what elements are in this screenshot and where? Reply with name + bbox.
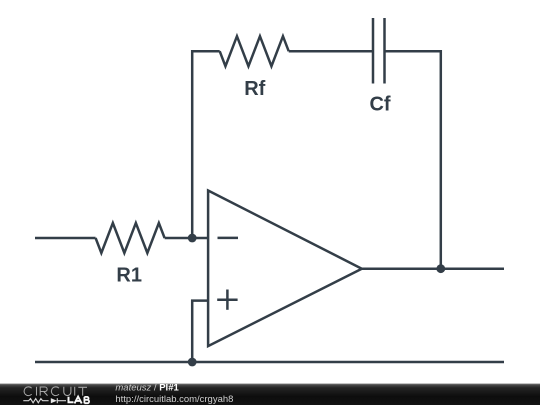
CircuitLab logo resistor-diode glyph (23, 398, 66, 403)
wire output (362, 267, 504, 270)
wire Rf to Cf (289, 50, 373, 53)
CircuitLab logo LAB wordmark (69, 397, 90, 404)
node junction at inverting input (188, 234, 197, 243)
svg-text:Rf: Rf (244, 78, 265, 100)
svg-text:mateusz / PI#1: mateusz / PI#1 (115, 382, 179, 393)
wire R1 to inverting input (165, 237, 209, 240)
CircuitLab logo CIRCUIT wordmark (24, 387, 87, 396)
svg-text:R1: R1 (116, 264, 142, 286)
footer bar (0, 384, 540, 405)
resistor R1 (96, 223, 165, 253)
wire feedback left vertical and top segment (192, 51, 220, 238)
node junction output-feedback (436, 264, 445, 273)
svg-text:Cf: Cf (369, 94, 390, 116)
svg-text:http://circuitlab.com/crgyah8: http://circuitlab.com/crgyah8 (115, 394, 233, 405)
wire Cf to right vertical and down to output (385, 51, 441, 269)
op-amp inverting pin minus sign (218, 237, 239, 240)
node junction bottom rail (188, 358, 197, 367)
wire bottom rail (35, 361, 504, 364)
wire non-inverting input to bottom rail (192, 301, 208, 362)
wire input left segment (35, 237, 96, 240)
capacitor Cf (373, 18, 385, 84)
CircuitLab logo diode triangle (51, 398, 57, 403)
op-amp U1 (208, 191, 362, 347)
op-amp non-inverting pin plus sign (217, 290, 237, 310)
resistor Rf (220, 36, 289, 66)
